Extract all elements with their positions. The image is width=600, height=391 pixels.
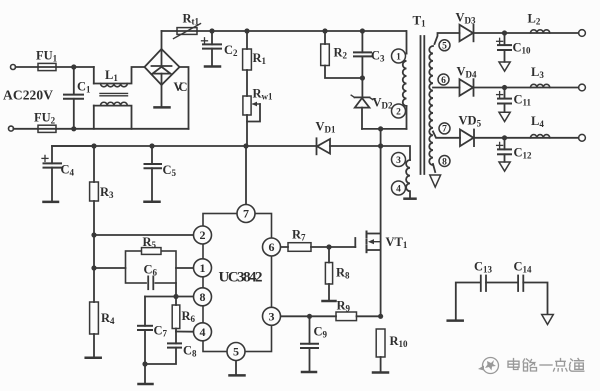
svg-text:L3: L3 — [531, 65, 544, 80]
wire — [16, 66, 39, 68]
pin 3 of U1 — [263, 307, 281, 325]
wire pin 1 right — [176, 267, 203, 269]
wire secondary tap 5 — [435, 33, 460, 44]
pin 8 of T1 — [439, 156, 450, 167]
wire — [14, 128, 39, 130]
svg-text:Rw1: Rw1 — [253, 87, 274, 102]
bridge rectifier VC — [145, 49, 180, 85]
fuse FU1 — [38, 63, 56, 70]
capacitor C14 — [486, 276, 548, 315]
resistor R7 — [288, 243, 355, 252]
inductor L1 common-mode choke — [94, 67, 145, 129]
node junction R1 top — [244, 28, 249, 33]
wire top rail left — [162, 30, 178, 32]
svg-text:C9: C9 — [314, 325, 328, 340]
diode VD1 — [317, 138, 381, 154]
pin circles of IC and transformer — [194, 40, 451, 361]
resistor R6 — [172, 297, 180, 332]
pin 7 of T1 — [439, 123, 450, 134]
wire secondary tap 6 — [433, 87, 460, 89]
diode VD2 zener — [351, 78, 373, 129]
svg-text:1: 1 — [396, 52, 401, 62]
svg-text:R8: R8 — [336, 266, 350, 281]
watermark text dianlu yidiantong — [508, 359, 584, 372]
node junction VCC pin7 — [243, 143, 248, 148]
resistor R10 — [376, 329, 385, 372]
wire pin 3 — [272, 315, 337, 317]
pin 4 of U1 — [194, 323, 212, 341]
node junction C1 bottom — [71, 126, 76, 131]
svg-text:C7: C7 — [154, 324, 168, 339]
pin 2 of U1 — [194, 226, 212, 244]
wire bottom AC rail — [56, 128, 189, 130]
pin 4 of T1 — [392, 181, 406, 195]
svg-text:VD3: VD3 — [456, 11, 477, 26]
svg-text:L1: L1 — [105, 68, 118, 83]
thermistor Rt1 — [174, 24, 201, 39]
pin 5 of T1 — [439, 40, 450, 51]
svg-text:7: 7 — [442, 125, 447, 135]
svg-text:R9: R9 — [337, 299, 351, 314]
wire pin 2 — [94, 234, 203, 236]
resistor R2 — [321, 31, 363, 78]
svg-text:4: 4 — [200, 325, 206, 339]
pin number digits — [200, 42, 448, 359]
wire pin 7 VCC — [245, 146, 247, 214]
ground auxiliary winding bar — [405, 197, 416, 200]
ground C9 bar — [302, 371, 316, 374]
node junction C3 top — [360, 28, 365, 33]
wire pin 1 left — [94, 267, 126, 269]
svg-text:VD4: VD4 — [457, 65, 478, 80]
wire pin 4 — [176, 331, 203, 333]
svg-text:2: 2 — [200, 228, 206, 242]
resistor R4 — [90, 302, 99, 357]
svg-text:VC: VC — [174, 80, 188, 94]
wire secondary tap 7 — [433, 132, 460, 138]
ground bridge negative bar — [155, 85, 170, 107]
ground pin5 bar — [230, 374, 245, 377]
capacitor C8 — [145, 332, 181, 365]
svg-text:R10: R10 — [390, 334, 409, 349]
svg-text:Rt1: Rt1 — [183, 12, 200, 27]
ground R4 bar — [86, 356, 101, 359]
node junction output 3 — [502, 135, 507, 140]
svg-text:C3: C3 — [371, 49, 385, 64]
watermark logo — [478, 358, 499, 374]
wire — [56, 66, 94, 68]
node output terminal 2 — [579, 84, 586, 91]
wire secondary bottom to ground — [433, 164, 435, 172]
svg-text:UC3842: UC3842 — [219, 270, 263, 286]
ground C2 bar — [205, 65, 220, 68]
svg-text:5: 5 — [442, 42, 447, 52]
ground secondary arrow under pin 8 — [430, 175, 441, 187]
node junction VCC R3 — [91, 143, 96, 148]
svg-text:C8: C8 — [183, 344, 197, 359]
svg-text:8: 8 — [442, 157, 447, 167]
pin 1 of T1 — [392, 49, 406, 63]
capacitor C5 — [145, 146, 162, 201]
capacitor C10 — [497, 33, 511, 62]
svg-text:3: 3 — [396, 156, 401, 166]
wire drain-source vertical — [380, 146, 382, 316]
node junction R2 C3 bottom — [360, 75, 365, 80]
inductor L4 — [505, 135, 579, 138]
svg-text:VD1: VD1 — [316, 120, 337, 135]
node junction C7 C8 — [142, 361, 147, 366]
svg-text:R7: R7 — [292, 228, 306, 243]
transformer T1 core — [421, 36, 425, 174]
svg-text:FU2: FU2 — [34, 111, 56, 126]
resistor R9 — [336, 312, 381, 321]
ground C11 arrow — [499, 112, 510, 121]
fuse FU2 — [38, 125, 56, 132]
ground C10 arrow — [499, 62, 510, 71]
capacitor C2 — [202, 31, 222, 66]
svg-text:R1: R1 — [253, 51, 267, 66]
wire pin 6 to R7 — [272, 246, 289, 248]
pin 6 of U1 — [263, 238, 281, 256]
resistor R8 — [325, 247, 332, 301]
svg-text:6: 6 — [269, 240, 275, 254]
potentiometer Rw1 — [243, 96, 260, 146]
svg-text:C14: C14 — [514, 260, 533, 275]
node AC input terminal top — [11, 65, 16, 70]
svg-text:8: 8 — [200, 290, 206, 304]
capacitor C7 — [138, 297, 152, 365]
pin 2 of T1 — [392, 104, 406, 118]
node junction VD2 drain — [378, 126, 383, 131]
svg-text:R4: R4 — [101, 311, 115, 326]
ground C4 bar — [44, 201, 59, 204]
wire rail — [93, 235, 95, 302]
node junction pin8 R6 — [173, 294, 178, 299]
svg-text:AC220V: AC220V — [3, 88, 53, 103]
svg-text:5: 5 — [233, 345, 239, 359]
pin 5 of U1 — [227, 343, 245, 361]
capacitor C12 — [497, 138, 511, 162]
svg-text:VD2: VD2 — [373, 96, 394, 111]
svg-text:3: 3 — [269, 310, 275, 324]
node junction output 1 — [502, 30, 507, 35]
svg-text:C1: C1 — [77, 80, 91, 95]
node junction C1 top — [71, 64, 76, 69]
capacitor C1 — [64, 67, 83, 129]
feedback loop R5 C6 — [126, 248, 177, 290]
svg-text:7: 7 — [243, 207, 249, 221]
wire top DC rail — [197, 30, 406, 32]
wire bridge top to rail — [161, 31, 163, 49]
wire — [380, 129, 382, 146]
wire drain top node — [362, 128, 407, 130]
svg-text:C6: C6 — [144, 263, 158, 278]
ground C12 arrow — [499, 162, 510, 171]
transformer T1 secondary winding — [429, 46, 433, 165]
pin 7 of U1 — [237, 205, 255, 223]
svg-text:C5: C5 — [163, 163, 177, 178]
node junction rail pin2 — [91, 232, 96, 237]
node junction rail pin1 — [91, 265, 96, 270]
svg-text:C11: C11 — [514, 93, 532, 108]
capacitor C9 — [301, 316, 318, 371]
node junction source R10 — [378, 314, 383, 319]
pin 3 of T1 — [392, 153, 406, 167]
node junction pin3 C9 — [307, 314, 312, 319]
svg-text:1: 1 — [200, 261, 206, 275]
svg-text:C10: C10 — [513, 41, 532, 56]
node junction VCC C5 — [149, 143, 154, 148]
svg-text:VT1: VT1 — [386, 235, 408, 250]
node output terminal 1 — [579, 30, 586, 37]
svg-text:C2: C2 — [224, 43, 238, 58]
capacitor C3 — [354, 31, 371, 78]
diode VD4 — [460, 79, 505, 96]
svg-text:R5: R5 — [143, 235, 157, 250]
transistor VT1 MOSFET — [355, 232, 380, 253]
transformer T1 auxiliary winding — [381, 146, 410, 198]
inductor L2 — [505, 30, 579, 33]
node AC input terminal bottom — [9, 126, 14, 131]
inductor L3 — [505, 84, 579, 87]
ground C13 bar — [448, 319, 463, 322]
node junction C2 — [209, 28, 214, 33]
diode VD5 — [460, 130, 505, 147]
svg-text:L4: L4 — [531, 114, 544, 129]
transformer T1 primary winding — [403, 31, 407, 129]
ground C7 bar — [139, 383, 153, 386]
node junction drain VD1 — [378, 143, 383, 148]
diode VD3 — [460, 25, 505, 42]
pin 8 of U1 — [194, 288, 212, 306]
wire pin 5 ground lead — [235, 352, 237, 376]
ground R8 bar — [323, 300, 336, 303]
resistor R1 — [243, 31, 252, 96]
svg-text:R2: R2 — [334, 46, 348, 61]
svg-text:C12: C12 — [514, 146, 533, 161]
svg-text:VD5: VD5 — [459, 114, 482, 129]
svg-text:L2: L2 — [528, 12, 541, 27]
wire VCC bus — [52, 145, 317, 147]
svg-text:6: 6 — [441, 76, 446, 86]
node junction gate R8 — [326, 244, 331, 249]
svg-text:2: 2 — [396, 107, 401, 117]
svg-text:R6: R6 — [182, 309, 196, 324]
pin 6 of T1 — [438, 74, 449, 85]
svg-text:R3: R3 — [100, 185, 114, 200]
svg-text:4: 4 — [396, 184, 401, 194]
ground C5 bar — [145, 201, 160, 204]
svg-text:T1: T1 — [413, 13, 427, 29]
ground C14 arrow — [542, 315, 554, 325]
node junction output 2 — [502, 85, 507, 90]
node output terminal 3 — [579, 134, 586, 141]
wire pin 8 — [145, 296, 203, 298]
capacitor C11 — [497, 88, 511, 113]
svg-text:C13: C13 — [474, 260, 493, 275]
capacitor C4 — [42, 146, 94, 202]
pin 1 of U1 — [194, 259, 212, 277]
ground R10 bar — [373, 371, 388, 374]
wire loop to pin8 node — [175, 283, 177, 297]
capacitor C13 — [456, 276, 486, 320]
wire bridge right AC riser — [180, 67, 189, 129]
resistor R3 — [90, 146, 99, 235]
svg-text:FU1: FU1 — [36, 49, 58, 64]
svg-text:C4: C4 — [61, 163, 75, 178]
wire — [144, 364, 146, 384]
IC U1 UC3842 box — [203, 214, 272, 352]
node junction R2 top — [322, 28, 327, 33]
